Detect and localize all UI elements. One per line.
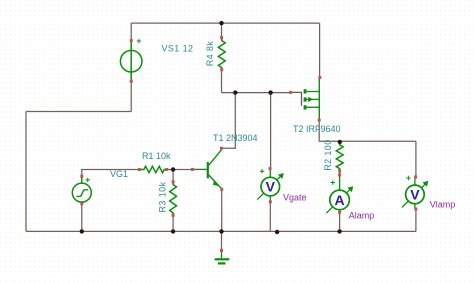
svg-text:Vgate: Vgate xyxy=(283,192,307,202)
wire R3 top lead xyxy=(172,170,174,185)
wire R4 top lead from rail xyxy=(221,23,223,40)
svg-text:R1 10k: R1 10k xyxy=(142,151,171,161)
ammeter Alamp xyxy=(326,171,353,213)
svg-text:T1 2N3904: T1 2N3904 xyxy=(213,133,258,143)
wire top rail xyxy=(131,22,319,24)
Vlamp plus sign xyxy=(406,176,410,180)
junction dot R1 R3 node xyxy=(171,167,175,171)
wire T1 collector jog xyxy=(221,93,235,149)
pin T1 collector xyxy=(220,147,223,150)
svg-text:VG1: VG1 xyxy=(110,169,128,179)
voltage source VS1 xyxy=(120,42,142,82)
wire T1 emitter to rail xyxy=(221,189,223,231)
resistor R4 xyxy=(218,38,225,70)
Alamp plus sign xyxy=(331,180,335,184)
wire gate horizontal xyxy=(222,92,291,94)
pin T1 base xyxy=(191,168,194,171)
wire Vlamp top lead xyxy=(415,141,417,177)
VG1 plus sign xyxy=(86,178,90,182)
svg-text:V: V xyxy=(266,179,276,195)
pin R3 top xyxy=(172,180,175,183)
pin R1 left xyxy=(138,168,141,171)
pin T2 source xyxy=(318,76,321,79)
pin R2 bottom xyxy=(338,169,341,172)
junction dot rail VG1 xyxy=(80,229,84,233)
resistor R2 xyxy=(336,142,343,171)
wire VG1 top to R1 xyxy=(82,170,141,183)
wire VS1 bottom down xyxy=(130,72,132,112)
pin VG1 bottom xyxy=(80,202,83,205)
pin Vlamp top xyxy=(414,176,417,179)
wire bottom rail xyxy=(26,230,416,232)
junction dot rail Alamp xyxy=(337,229,341,233)
junction dot rail Vgate offset xyxy=(275,230,279,234)
ground xyxy=(215,250,230,263)
pin R1 right xyxy=(165,168,168,171)
svg-text:VS1 12: VS1 12 xyxy=(162,44,194,54)
pin R3 bottom xyxy=(172,214,175,217)
junction dot drain wire R2 xyxy=(338,140,342,144)
pin T2 drain xyxy=(318,119,321,122)
pin R4 top xyxy=(220,36,223,39)
wire Alamp bottom to rail xyxy=(339,212,341,231)
svg-text:Alamp: Alamp xyxy=(349,210,375,220)
voltmeter Vlamp xyxy=(402,177,429,209)
pin VG1 top xyxy=(80,175,83,178)
svg-text:V: V xyxy=(410,186,420,202)
junction dot rail R4 top xyxy=(219,21,223,25)
wire Vgate bottom to rail xyxy=(269,203,271,232)
svg-text:T2 IRF9640: T2 IRF9640 xyxy=(293,124,341,134)
wire top rail corner down to T2 source xyxy=(319,23,321,77)
svg-text:Vlamp: Vlamp xyxy=(430,199,456,209)
junction dot rail R3 xyxy=(171,229,175,233)
wire Vgate top branch xyxy=(270,93,272,169)
wire R3 bottom to rail xyxy=(172,213,174,231)
wire R4 bottom to gate wire xyxy=(221,68,223,93)
svg-text:R4 8k: R4 8k xyxy=(205,41,215,67)
pin Vgate top xyxy=(269,167,272,170)
pin Alamp bottom xyxy=(338,211,341,214)
wire T2 drain down and right to Vlamp xyxy=(319,120,416,141)
svg-text:A: A xyxy=(335,192,345,208)
svg-text:R3 10k: R3 10k xyxy=(158,181,168,212)
wire VS1 top lead to rail xyxy=(130,23,132,50)
pin T1 emitter xyxy=(220,188,223,191)
mosfet T2 xyxy=(291,78,320,121)
wire R2 top lead xyxy=(339,142,341,145)
wire VG1 bottom to rail xyxy=(81,201,83,231)
Vgate plus sign xyxy=(260,169,264,173)
svg-text:R2 100: R2 100 xyxy=(323,139,333,170)
wire R1 right to T1 base xyxy=(167,169,207,171)
pin ground xyxy=(220,249,223,252)
pin Vgate bottom xyxy=(269,200,272,203)
pin T2 gate xyxy=(289,91,292,94)
voltmeter Vgate xyxy=(257,169,284,202)
junction dot gate wire collector xyxy=(233,90,237,94)
wire left horizontal xyxy=(26,111,131,113)
resistor R3 xyxy=(170,182,177,215)
pin Vlamp bottom xyxy=(414,208,417,211)
wire ground stub xyxy=(221,231,223,250)
VS1 plus sign xyxy=(137,39,141,43)
generator VG1 xyxy=(72,177,91,204)
transistor T1 xyxy=(194,150,222,189)
resistor R1 xyxy=(141,166,167,172)
pin R4 bottom xyxy=(220,68,223,71)
wire left vertical xyxy=(25,112,27,232)
pin Alamp top xyxy=(338,173,341,176)
pin VS1 top xyxy=(130,39,133,42)
wire Vlamp bottom to rail xyxy=(415,209,417,231)
junction dot rail emitter xyxy=(219,229,223,233)
pin VS1 bottom xyxy=(130,80,133,83)
junction dot gate wire Vgate xyxy=(268,90,272,94)
